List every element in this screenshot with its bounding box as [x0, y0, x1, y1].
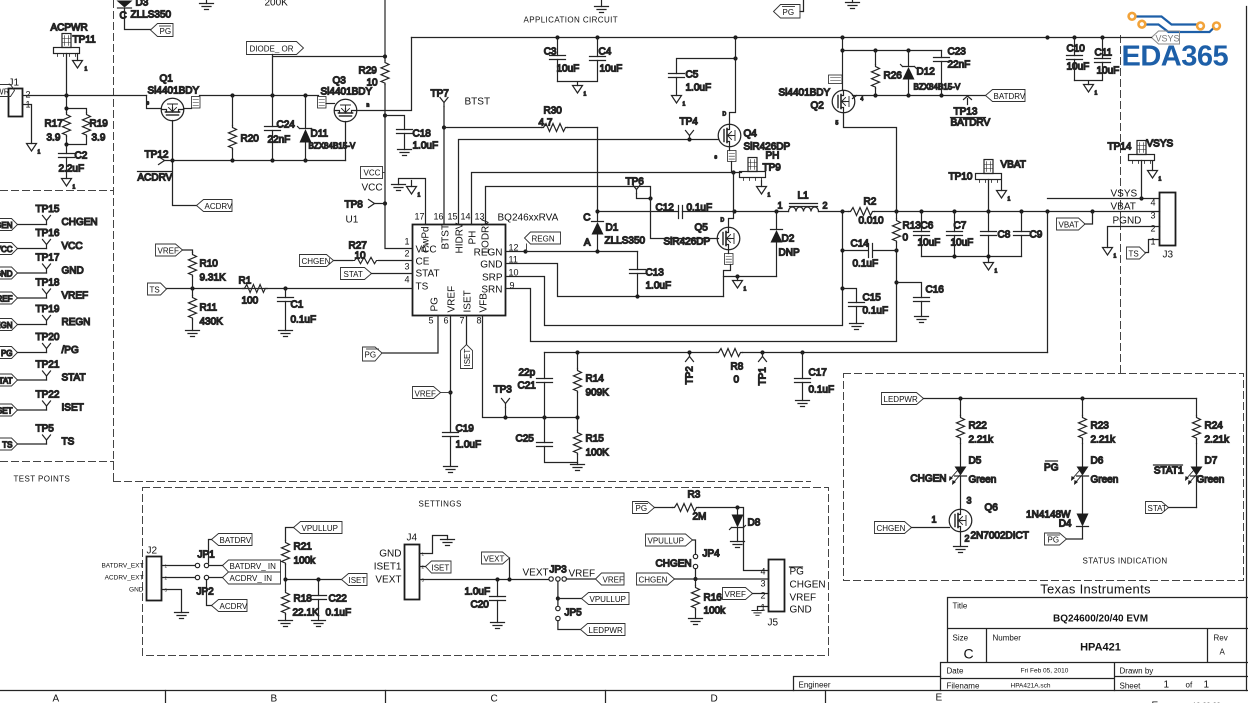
capacitor C3	[544, 38, 580, 82]
net flag BATDRV_IN	[209, 560, 281, 572]
svg-text:E: E	[936, 693, 943, 703]
jumper JP1	[162, 550, 216, 568]
svg-text:B: B	[271, 694, 278, 703]
svg-text:A: A	[584, 238, 591, 249]
svg-text:1: 1	[1164, 680, 1170, 691]
net flag TS (J3)	[1127, 247, 1146, 259]
ground (R18)	[279, 621, 293, 627]
svg-text:R26: R26	[884, 71, 903, 82]
svg-text:PG: PG	[1, 349, 13, 358]
svg-text:1N4148W: 1N4148W	[1026, 510, 1071, 521]
PH pin14 wire	[472, 170, 742, 224]
svg-text:CE: CE	[416, 257, 430, 268]
svg-text:Rev: Rev	[1214, 634, 1228, 643]
svg-text:TP5: TP5	[36, 424, 55, 435]
svg-text:0.1uF: 0.1uF	[863, 306, 889, 317]
svg-text:10uF: 10uF	[600, 64, 623, 75]
svg-text:1: 1	[1159, 177, 1162, 183]
svg-text:BTST: BTST	[465, 97, 491, 108]
svg-text:Si4401BDY: Si4401BDY	[779, 88, 831, 99]
svg-text:TEST POINTS: TEST POINTS	[14, 475, 71, 484]
svg-text:CHGEN: CHGEN	[62, 217, 98, 228]
svg-text:ISET: ISET	[349, 576, 367, 585]
svg-text:BQ24600/20/40 EVM: BQ24600/20/40 EVM	[1053, 614, 1148, 625]
test points dashed partition	[1, 1, 811, 482]
net flag PG (R3)	[633, 502, 655, 514]
svg-text:1.0uF: 1.0uF	[686, 83, 712, 94]
ground (R16)	[689, 619, 703, 625]
BTST label	[465, 97, 491, 108]
resistor R3	[655, 490, 738, 523]
svg-text:STAT1: STAT1	[1154, 466, 1184, 477]
svg-text:DIODE_ OR: DIODE_ OR	[250, 45, 294, 54]
ground (C6-C9)	[984, 263, 998, 275]
svg-text:GND: GND	[379, 549, 401, 560]
svg-text:3: 3	[404, 262, 409, 272]
resistor R20	[229, 96, 260, 161]
net flag ISET (J4)	[420, 561, 452, 573]
net flag REGN	[525, 232, 561, 252]
svg-text:C20: C20	[471, 600, 490, 611]
svg-text:JP5: JP5	[565, 608, 583, 619]
ground (C2)	[62, 179, 76, 191]
net flag VPULLUP (JP4)	[646, 534, 696, 554]
capacitor C14	[843, 239, 897, 270]
net flag ACDRV_IN	[209, 572, 281, 584]
svg-text:TP12: TP12	[145, 150, 169, 161]
wire JP4 to chgen line	[693, 569, 697, 581]
capacitor C15	[843, 289, 889, 324]
gate wire Q1 / ACDRV	[170, 121, 196, 206]
svg-text:C2: C2	[75, 151, 88, 162]
svg-text:PWR: PWR	[0, 88, 10, 97]
EDA365 logo text	[1122, 41, 1229, 73]
jumper JP2	[162, 575, 215, 597]
svg-text:Q6: Q6	[985, 503, 999, 514]
ground (top right)	[846, 1, 860, 9]
zener D11	[298, 96, 356, 161]
resistor R30	[444, 106, 598, 132]
svg-text:Number: Number	[993, 634, 1022, 643]
svg-text:C10: C10	[1067, 44, 1086, 55]
svg-text:LEDPWR: LEDPWR	[589, 626, 623, 635]
wire VBAT flag	[1085, 212, 1093, 225]
svg-text:2: 2	[404, 249, 409, 259]
capacitor C24	[265, 96, 296, 161]
svg-text:C6: C6	[921, 221, 934, 232]
connector J1	[9, 78, 31, 117]
svg-text:VSYS: VSYS	[1156, 34, 1180, 44]
settings dashed box	[143, 488, 829, 656]
gate rail Q2/R26/D12	[843, 48, 942, 52]
svg-text:10uF: 10uF	[918, 238, 941, 249]
svg-text:PG: PG	[783, 8, 795, 17]
svg-text:4: 4	[861, 97, 864, 103]
svg-text:R3: R3	[688, 490, 701, 501]
svg-text:of: of	[1186, 681, 1193, 690]
svg-text:CHGEN: CHGEN	[0, 221, 13, 230]
testpoint TP20 row	[0, 332, 79, 359]
svg-text:D3: D3	[136, 0, 149, 9]
svg-text:1.0uF: 1.0uF	[456, 440, 482, 451]
resistor R19	[64, 106, 108, 146]
svg-text:3.9: 3.9	[47, 133, 61, 144]
wire Q1 to Q3	[200, 93, 319, 97]
svg-text:SETTINGS: SETTINGS	[419, 500, 462, 509]
svg-text:VSYS: VSYS	[1147, 139, 1174, 150]
svg-text:PH: PH	[766, 151, 780, 162]
net flag ISET (settings)	[342, 574, 368, 586]
svg-text:5: 5	[836, 121, 839, 127]
svg-text:1: 1	[1008, 197, 1011, 203]
svg-text:GND: GND	[480, 260, 502, 271]
net flag VEXT	[482, 552, 510, 580]
VEXT label	[523, 568, 549, 579]
svg-text:BTST: BTST	[441, 224, 452, 250]
svg-text:D8: D8	[748, 518, 761, 529]
ground (TP10)	[997, 181, 1011, 203]
LED D7	[1154, 444, 1225, 508]
ground (C10/C11)	[1084, 85, 1098, 97]
svg-text:Green: Green	[1197, 475, 1225, 486]
resistor R22	[957, 399, 994, 446]
resistor R2	[849, 197, 884, 227]
capacitor C21	[518, 353, 553, 418]
batdrv rail	[853, 93, 986, 98]
svg-text:STAT: STAT	[1148, 504, 1167, 513]
svg-text:2: 2	[1150, 224, 1155, 234]
svg-text:2: 2	[760, 591, 765, 601]
svg-text:ACDRV: ACDRV	[220, 602, 249, 611]
svg-text:STAT: STAT	[416, 269, 440, 280]
net flag CHGEN (Q6)	[875, 522, 912, 534]
svg-text:BATDRV_EXT: BATDRV_EXT	[101, 563, 143, 570]
svg-text:4: 4	[760, 567, 765, 577]
ground (D8)	[731, 542, 745, 548]
svg-text:C8: C8	[998, 230, 1011, 241]
svg-text:1: 1	[404, 237, 409, 247]
resistor R17	[45, 96, 71, 145]
svg-text:R11: R11	[200, 303, 218, 314]
wire J1 pin2 to Q1	[23, 93, 147, 97]
svg-text:22nF: 22nF	[268, 135, 291, 146]
svg-text:Q5: Q5	[695, 223, 709, 234]
svg-text:EDA365: EDA365	[1122, 41, 1229, 73]
svg-text:ISET: ISET	[0, 407, 13, 416]
SRN pin9 wire	[506, 248, 899, 341]
svg-text:ZLLS350: ZLLS350	[605, 236, 646, 247]
transistor Q1	[147, 74, 201, 121]
svg-text:Drawn by: Drawn by	[1120, 667, 1154, 676]
ground (C16)	[915, 317, 929, 323]
svg-text:2M: 2M	[693, 512, 707, 523]
net flag PG (D4)	[1045, 533, 1083, 545]
svg-text:CHGEN: CHGEN	[910, 474, 946, 485]
wire PG flag up	[800, 1, 804, 12]
pin6 VREF wire	[448, 316, 452, 433]
svg-text:D11: D11	[311, 129, 329, 140]
svg-text:R8: R8	[731, 362, 744, 373]
svg-text:6: 6	[443, 316, 448, 326]
REGN pin12 wire	[506, 209, 638, 253]
svg-text:10uF: 10uF	[557, 64, 580, 75]
svg-text:R19: R19	[90, 119, 109, 130]
testpoint TP13	[951, 96, 991, 129]
GND pin11 wire	[506, 264, 724, 299]
svg-text:TS: TS	[2, 441, 12, 450]
diode D2	[771, 212, 800, 277]
svg-text:CHGEN: CHGEN	[639, 576, 668, 585]
svg-text:1: 1	[932, 515, 937, 525]
svg-text:200K: 200K	[265, 0, 289, 9]
svg-text:PG: PG	[1044, 463, 1059, 474]
connector J4	[374, 533, 425, 600]
wire TR14 down	[1141, 161, 1143, 199]
svg-text:4: 4	[1150, 198, 1155, 208]
svg-text:4.7: 4.7	[539, 118, 553, 129]
resistor R1	[239, 276, 268, 307]
svg-text:C5: C5	[686, 70, 699, 81]
wire TP8	[375, 203, 386, 205]
svg-text:ISET: ISET	[463, 290, 474, 312]
svg-text:J3: J3	[1163, 250, 1174, 261]
testpoint TP21 row	[0, 360, 86, 387]
svg-text:U1: U1	[346, 215, 359, 226]
svg-text:22p: 22p	[519, 368, 536, 379]
svg-text:C23: C23	[948, 47, 967, 58]
svg-text:VFB: VFB	[479, 293, 490, 313]
svg-text:TP11: TP11	[73, 35, 97, 46]
svg-text:C12: C12	[656, 203, 675, 214]
svg-text:APPLICATION CIRCUIT: APPLICATION CIRCUIT	[524, 16, 619, 25]
sheet right border	[1246, 7, 1248, 691]
svg-text:2: 2	[965, 534, 970, 544]
capacitor C5	[669, 56, 738, 95]
net flag STAT (pin3)	[341, 268, 372, 280]
wire JP3 to VPULLUP node	[556, 582, 582, 607]
svg-text:3.9: 3.9	[92, 133, 106, 144]
svg-text:VPULLUP: VPULLUP	[302, 524, 338, 533]
svg-text:C19: C19	[456, 424, 475, 435]
svg-text:1: 1	[73, 185, 76, 191]
VCC vertical wire	[383, 85, 413, 249]
svg-text:3: 3	[1150, 211, 1155, 221]
svg-text:ISET: ISET	[62, 403, 84, 414]
svg-text:STATUS INDICATION: STATUS INDICATION	[1083, 557, 1168, 566]
net flag ACDRV	[197, 200, 234, 212]
svg-text:PG: PG	[430, 297, 441, 312]
svg-text:Q1: Q1	[160, 74, 174, 85]
net flag CHGEN (pin2)	[300, 255, 334, 267]
svg-text:2.21k: 2.21k	[1205, 435, 1230, 446]
svg-text:1: 1	[744, 287, 747, 293]
testpoint TP15 row	[0, 204, 98, 231]
svg-text:ISET: ISET	[463, 349, 472, 367]
svg-text:JP2: JP2	[197, 587, 215, 598]
net flag LEDPWR (status)	[882, 393, 924, 405]
svg-text:C9: C9	[1030, 230, 1043, 241]
svg-text:R16: R16	[704, 593, 723, 604]
net flag STAT (D7)	[1146, 502, 1197, 514]
EDA365 logo traces	[1129, 13, 1220, 32]
net flag VCC	[361, 167, 386, 179]
battery cap ground rail	[922, 254, 1022, 262]
svg-text:10uF: 10uF	[1067, 62, 1090, 73]
svg-text:TP18: TP18	[36, 278, 60, 289]
svg-text:J1: J1	[9, 78, 20, 89]
testpoint TP9 header	[740, 151, 782, 181]
svg-text:VREF: VREF	[790, 593, 817, 604]
svg-text:1: 1	[1150, 237, 1155, 247]
ground (Q5 source)	[733, 281, 747, 293]
svg-text:8: 8	[476, 316, 481, 326]
wire Q5 source / gnd	[724, 274, 777, 296]
capacitor C7	[947, 212, 974, 257]
svg-text:JP4: JP4	[703, 549, 721, 560]
zener D12	[901, 51, 961, 96]
svg-text:LEDPWR: LEDPWR	[884, 395, 918, 404]
svg-text:1: 1	[760, 603, 765, 613]
svg-text:C16: C16	[926, 285, 945, 296]
svg-text:1: 1	[1114, 254, 1117, 260]
svg-text:STAT: STAT	[62, 373, 86, 384]
svg-text:C: C	[583, 213, 590, 224]
svg-text:J5: J5	[768, 618, 779, 629]
wire J4 pin1 gnd	[420, 536, 448, 554]
testpoint TP10 header	[949, 160, 1026, 183]
svg-text:VREF: VREF	[62, 291, 89, 302]
svg-text:JP3: JP3	[550, 565, 568, 576]
svg-text:PG: PG	[160, 27, 172, 36]
svg-text:D12: D12	[917, 67, 936, 78]
zener D8	[730, 505, 761, 541]
svg-text:Green: Green	[1091, 475, 1119, 486]
svg-text:Texas Instruments: Texas Instruments	[1040, 582, 1151, 597]
wire CHGEN to gate	[912, 527, 950, 529]
capacitor C13	[630, 252, 672, 297]
svg-text:BZX84B15-V: BZX84B15-V	[309, 142, 356, 151]
svg-text:REGN: REGN	[62, 317, 91, 328]
testpoint TP18 row	[0, 278, 88, 305]
BTST vertical wire	[442, 107, 446, 225]
wire TP10 to rail	[988, 180, 990, 212]
svg-text:D: D	[711, 694, 718, 703]
testpoint TP8	[345, 200, 375, 211]
svg-text:R20: R20	[241, 134, 260, 145]
svg-text:C15: C15	[863, 293, 882, 304]
testpoint TP2	[685, 353, 696, 385]
VSYS wire to J3	[1048, 196, 1160, 200]
wire JP3 to VREF	[567, 569, 596, 580]
zone letter A	[53, 694, 60, 703]
svg-text:TP22: TP22	[36, 390, 60, 401]
transistor Q6	[932, 496, 1029, 547]
svg-text:VCC: VCC	[362, 183, 383, 194]
ground (C17)	[796, 401, 810, 407]
bottom right fragments	[1152, 701, 1221, 703]
svg-text:A: A	[1220, 648, 1226, 657]
svg-text:R17: R17	[45, 119, 64, 130]
svg-text:R21: R21	[294, 542, 313, 553]
svg-text:R30: R30	[544, 106, 563, 117]
svg-text:GND: GND	[790, 605, 812, 616]
testpoint TR14 header	[1108, 139, 1174, 164]
resistor R10	[189, 253, 226, 289]
testpoint TP4	[680, 117, 699, 140]
capacitor C4	[558, 38, 623, 86]
svg-text:VEXT: VEXT	[484, 555, 505, 564]
svg-text:R1: R1	[239, 276, 252, 287]
svg-text:C: C	[964, 646, 974, 662]
svg-text:HPA421: HPA421	[1080, 642, 1121, 654]
pin5 PG wire	[382, 316, 438, 354]
wire D3 to PG flag	[125, 9, 151, 30]
svg-text:TS: TS	[150, 286, 160, 295]
capacitor C9	[1014, 212, 1043, 257]
gate wire Q3	[345, 122, 347, 161]
svg-text:BZX84B15-V: BZX84B15-V	[914, 83, 961, 92]
testpoint TP1	[758, 353, 769, 386]
ground (TR14)	[1148, 162, 1162, 183]
resistor R21	[282, 541, 317, 580]
svg-text:C: C	[491, 694, 498, 703]
svg-text:VPULLUP: VPULLUP	[648, 537, 684, 546]
ground (C1)	[279, 331, 293, 337]
svg-text:SiR426DP: SiR426DP	[664, 237, 711, 248]
inductor L1	[778, 191, 828, 212]
input flag fragment	[0, 85, 15, 97]
svg-text:0: 0	[903, 233, 909, 244]
svg-text:Engineer: Engineer	[799, 681, 831, 690]
svg-text:Q2: Q2	[811, 101, 825, 112]
svg-text:C22: C22	[329, 594, 348, 605]
svg-text:1: 1	[768, 193, 771, 199]
svg-text:VREF: VREF	[725, 590, 746, 599]
resistor R16	[692, 579, 727, 619]
svg-text:C3: C3	[544, 47, 557, 58]
net flag LEDPWR (JP5)	[581, 624, 626, 636]
wire Q2 source to VBAT	[844, 113, 897, 212]
net flag PG (top left)	[151, 24, 174, 37]
svg-text:L1: L1	[798, 191, 810, 202]
svg-text:C24: C24	[277, 120, 296, 131]
resistor R29	[359, 1, 390, 89]
svg-text:Si4401BDY: Si4401BDY	[148, 86, 200, 97]
svg-text:C21: C21	[518, 381, 537, 392]
svg-text:0.1uF: 0.1uF	[326, 608, 352, 619]
svg-text:D2: D2	[782, 234, 795, 245]
capacitor C11	[1075, 38, 1120, 85]
VSYS sense vertical	[1047, 212, 1049, 353]
pin7 ISET wire	[466, 316, 468, 345]
testpoint TP7	[431, 89, 450, 107]
svg-text:ACDRV: ACDRV	[138, 173, 173, 184]
Texas Instruments caption	[1040, 582, 1151, 597]
connector J5	[760, 560, 825, 629]
svg-text:CHGEN: CHGEN	[790, 580, 826, 591]
svg-text:15: 15	[447, 212, 457, 222]
svg-text:TP9: TP9	[763, 163, 782, 174]
LED D5	[910, 444, 996, 510]
svg-text:VCC: VCC	[0, 245, 13, 254]
svg-text:1: 1	[995, 269, 998, 275]
net flag DIODE_OR	[247, 42, 304, 55]
svg-text:TP21: TP21	[36, 360, 60, 371]
svg-text:D6: D6	[1091, 456, 1104, 467]
svg-text:PG: PG	[365, 351, 377, 360]
svg-text:VREF: VREF	[447, 286, 458, 313]
wire STAT to pin3	[372, 273, 413, 275]
